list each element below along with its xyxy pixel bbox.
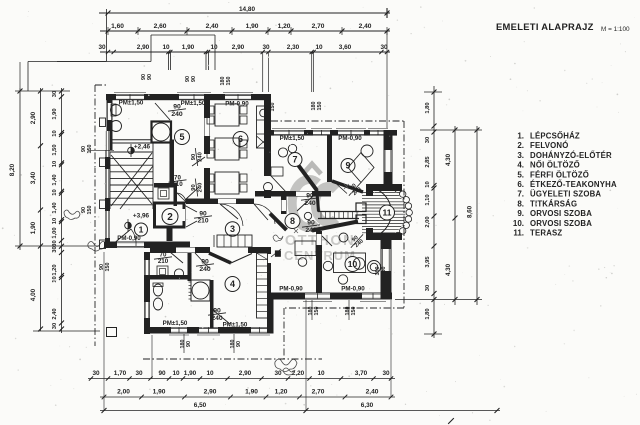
room1 entry door swing — [112, 229, 131, 245]
room4 vestibule diagonals — [209, 253, 231, 263]
bottom dimension row 1 — [88, 378, 395, 380]
room label 10 — [345, 257, 360, 272]
svg-text:2,90: 2,90 — [239, 370, 252, 377]
svg-text:11.: 11. — [513, 229, 524, 238]
room4 washbasin box — [157, 266, 168, 277]
north wall west block — [106, 94, 271, 100]
svg-text:6,50: 6,50 — [194, 402, 207, 409]
plant scribble south-east — [275, 359, 297, 372]
svg-text:10: 10 — [52, 218, 58, 224]
svg-text:90: 90 — [147, 74, 153, 80]
room6 kitchen counter — [257, 106, 271, 148]
svg-text:1,70: 1,70 — [114, 370, 127, 377]
svg-text:1,20: 1,20 — [275, 389, 288, 396]
room 8 desk — [295, 241, 316, 256]
svg-text:LÉPCSŐHÁZ: LÉPCSŐHÁZ — [530, 132, 580, 141]
north wall east block (rooms 7,9) — [264, 130, 397, 136]
svg-text:30: 30 — [98, 44, 106, 51]
svg-text:2,40: 2,40 — [359, 23, 372, 30]
door room10 terrace 90/240 rotated — [347, 231, 369, 252]
svg-text:2,90: 2,90 — [232, 44, 245, 51]
svg-text:4,30: 4,30 — [445, 263, 452, 276]
svg-text:10: 10 — [52, 189, 58, 195]
svg-text:TERASZ: TERASZ — [530, 229, 562, 238]
door room9 terrace 90/240 rotated — [345, 179, 367, 200]
svg-text:30: 30 — [135, 370, 143, 377]
svg-text:2,00: 2,00 — [425, 216, 431, 227]
annex south wall — [104, 242, 190, 249]
east wall room 10 — [381, 237, 392, 299]
room label 2 — [162, 209, 178, 225]
svg-text:PM±1,50: PM±1,50 — [163, 320, 188, 327]
corridor diagonal wall room7 — [297, 164, 317, 191]
corridor wall near elevator — [186, 199, 254, 205]
svg-text:210: 210 — [172, 181, 183, 188]
svg-text:150: 150 — [87, 206, 93, 215]
south wall central block — [144, 327, 271, 334]
svg-text:240: 240 — [211, 315, 223, 322]
svg-text:240: 240 — [199, 266, 211, 273]
svg-text:10: 10 — [52, 161, 58, 167]
svg-text:2.: 2. — [517, 141, 524, 150]
sill witness verticals — [183, 334, 185, 353]
svg-text:PM-0,90: PM-0,90 — [225, 101, 249, 108]
svg-text:1,10: 1,10 — [425, 194, 431, 205]
elevator door leaders — [184, 205, 197, 212]
room10 furniture — [334, 253, 366, 273]
svg-text:PM±1,50: PM±1,50 — [181, 100, 206, 107]
room 10 west wall — [316, 231, 322, 293]
svg-text:2,70: 2,70 — [312, 389, 325, 396]
door room4 vestibule 90/240 — [196, 259, 214, 273]
svg-text:2,00: 2,00 — [117, 389, 130, 396]
benchmark flag room1 — [125, 222, 132, 229]
svg-text:1,40: 1,40 — [52, 202, 58, 213]
door corridor east swing — [254, 204, 268, 220]
bottom dimension row 3 — [100, 410, 500, 412]
terrace semicircle deck — [373, 188, 391, 237]
survey marker — [128, 147, 135, 154]
svg-text:210: 210 — [197, 218, 208, 225]
door room5 90/240 — [155, 103, 170, 120]
svg-text:1: 1 — [139, 225, 144, 235]
wall room6 west lower part — [204, 168, 210, 204]
svg-text:M = 1:100: M = 1:100 — [601, 26, 630, 33]
room6 tables and chairs — [215, 104, 239, 126]
right inner chain — [433, 86, 435, 338]
left middle chain — [40, 88, 42, 331]
rooms 7-9 divider wall — [327, 135, 332, 182]
svg-text:3,40: 3,40 — [30, 171, 37, 184]
east wall room 6 block — [264, 94, 271, 134]
svg-text:1,20: 1,20 — [278, 23, 291, 30]
svg-text:8.: 8. — [517, 199, 524, 208]
room 8 west wall stub — [281, 196, 287, 214]
room9 south diagonal wall — [332, 181, 363, 192]
door room7 swing — [271, 176, 287, 193]
svg-text:6,30: 6,30 — [361, 402, 374, 409]
svg-text:150: 150 — [226, 77, 232, 86]
svg-text:8: 8 — [290, 216, 295, 226]
svg-text:2,40: 2,40 — [206, 23, 219, 30]
svg-text:30: 30 — [262, 44, 270, 51]
left inner chain — [61, 88, 63, 333]
terrace bay jambs — [366, 184, 402, 196]
svg-text:3,60: 3,60 — [339, 44, 352, 51]
svg-text:2,40: 2,40 — [366, 389, 379, 396]
svg-text:30: 30 — [274, 370, 282, 377]
svg-text:ÜGYELETI SZOBA: ÜGYELETI SZOBA — [530, 190, 601, 199]
stray tick bottom right — [448, 418, 454, 424]
svg-text:ORVOSI SZOBA: ORVOSI SZOBA — [530, 219, 592, 228]
top dimension row 3 — [100, 51, 390, 53]
room5 wall chairs — [111, 105, 122, 116]
svg-text:2,70: 2,70 — [312, 23, 325, 30]
left witness lines — [15, 245, 100, 247]
svg-text:1,90: 1,90 — [52, 108, 58, 119]
corridor steps band to terrace — [318, 211, 359, 213]
svg-text:PM-0,90: PM-0,90 — [341, 286, 365, 293]
room label 6 — [233, 132, 248, 147]
room6/7 wall lower — [264, 134, 271, 176]
room4 shower — [191, 280, 210, 301]
svg-text:30: 30 — [92, 370, 100, 377]
terrace deck stripes — [362, 192, 396, 194]
dash-dot overhang boundary — [271, 120, 404, 122]
svg-text:30: 30 — [52, 323, 58, 329]
svg-text:14,80: 14,80 — [239, 6, 255, 13]
room4 NE wall to east — [248, 247, 271, 253]
svg-text:ORVOSI SZOBA: ORVOSI SZOBA — [530, 209, 592, 218]
svg-text:10: 10 — [52, 130, 58, 136]
room7 chairs — [278, 148, 287, 157]
top witness step outline — [57, 61, 151, 63]
stairs room 1 — [110, 151, 153, 153]
svg-text:3,70: 3,70 — [355, 370, 368, 377]
svg-text:4,30: 4,30 — [445, 153, 452, 166]
svg-text:210: 210 — [158, 258, 169, 265]
svg-text:1,80: 1,80 — [425, 308, 431, 319]
storage box — [158, 188, 169, 199]
svg-text:FELVONÓ: FELVONÓ — [530, 141, 569, 150]
svg-text:ÉTKEZŐ-TEAKONYHA: ÉTKEZŐ-TEAKONYHA — [530, 180, 617, 189]
svg-text:2,30: 2,30 — [287, 44, 300, 51]
west wall lower block — [144, 252, 150, 334]
room4 toilets — [153, 284, 162, 296]
svg-text:10: 10 — [210, 44, 218, 51]
double witness ticks below row 3 — [168, 52, 170, 70]
room label 7 — [288, 153, 302, 167]
watermark logo OC — [292, 180, 336, 228]
svg-text:1,00: 1,00 — [52, 227, 58, 238]
room label 5 — [175, 130, 190, 145]
svg-text:1,90: 1,90 — [30, 221, 37, 234]
svg-text:3: 3 — [230, 224, 235, 234]
svg-text:1,90: 1,90 — [182, 44, 195, 51]
svg-text:1,90: 1,90 — [245, 389, 258, 396]
terrace scallop stones — [395, 186, 401, 192]
door room3 north swing — [220, 204, 238, 219]
elevator door gap — [182, 209, 186, 221]
svg-text:240: 240 — [197, 183, 203, 193]
room4 east wall — [267, 253, 271, 299]
svg-text:150: 150 — [270, 103, 276, 112]
svg-text:240: 240 — [305, 227, 317, 234]
right outer chain 8,60 — [476, 126, 478, 305]
scribble marks — [344, 184, 356, 193]
terrace door panels — [356, 203, 366, 212]
elevator room 2 shaft — [155, 203, 185, 227]
svg-text:PM±1,50: PM±1,50 — [223, 322, 248, 329]
svg-text:240: 240 — [197, 152, 203, 162]
svg-text:10: 10 — [317, 370, 325, 377]
svg-text:30: 30 — [52, 91, 58, 97]
svg-text:6.: 6. — [517, 180, 524, 189]
svg-text:10: 10 — [206, 370, 214, 377]
right middle chain 4,30+4,30 — [454, 126, 456, 305]
svg-text:2,60: 2,60 — [154, 23, 167, 30]
svg-text:NŐI ÖLTÖZŐ: NŐI ÖLTÖZŐ — [530, 161, 580, 170]
svg-text:DOHÁNYZÓ-ELŐTÉR: DOHÁNYZÓ-ELŐTÉR — [530, 151, 612, 160]
storage room walls — [154, 183, 177, 188]
stair landing wall — [170, 140, 175, 185]
svg-text:5.: 5. — [517, 170, 524, 179]
svg-text:PM-0,90: PM-0,90 — [279, 286, 303, 293]
south wall right block — [267, 293, 392, 300]
room label 4 — [225, 277, 240, 292]
svg-text:150: 150 — [314, 307, 320, 316]
west wall upper — [107, 94, 113, 150]
svg-text:PM±1,50: PM±1,50 — [119, 100, 144, 107]
witness line left at 1,50 level — [88, 149, 114, 151]
room 8 plant scribble — [273, 235, 283, 241]
door room4 south 90/240 — [208, 308, 226, 322]
svg-text:150: 150 — [351, 307, 357, 316]
svg-text:10: 10 — [315, 44, 323, 51]
svg-text:9.: 9. — [517, 209, 524, 218]
top dimension row 1 total 14,80 — [99, 12, 390, 14]
svg-text:30: 30 — [52, 246, 58, 252]
svg-text:30: 30 — [382, 370, 390, 377]
svg-text:1,80: 1,80 — [425, 102, 431, 113]
svg-text:1,40: 1,40 — [52, 174, 58, 185]
room label 11 — [380, 205, 395, 220]
room label 8 — [285, 214, 300, 229]
left chain total 8,20 — [19, 88, 21, 250]
svg-text:2: 2 — [167, 212, 173, 223]
svg-text:30: 30 — [425, 285, 431, 291]
svg-text:4.: 4. — [517, 161, 524, 170]
room label 1 — [135, 223, 148, 236]
room label 9 — [341, 159, 355, 173]
corridor lower diagonal wall — [312, 222, 358, 231]
svg-text:1,90: 1,90 — [246, 23, 259, 30]
svg-text:90: 90 — [191, 76, 197, 82]
door 70/210 upper — [169, 175, 187, 189]
svg-text:+3,96: +3,96 — [133, 213, 150, 220]
svg-text:90: 90 — [186, 341, 192, 347]
svg-text:10: 10 — [348, 259, 358, 269]
svg-text:PM-0,90: PM-0,90 — [338, 135, 362, 142]
door corridor rotated 90/240 lower — [185, 187, 199, 200]
svg-text:+2,46: +2,46 — [134, 144, 151, 151]
room9 diamond table — [348, 153, 374, 183]
room 8 NW diagonal wall — [270, 214, 287, 231]
svg-text:7: 7 — [292, 155, 297, 165]
right witness lines — [420, 129, 482, 131]
svg-text:10: 10 — [52, 276, 58, 282]
west wall stair area — [105, 150, 110, 248]
svg-text:EMELETI ALAPRAJZ: EMELETI ALAPRAJZ — [496, 21, 594, 32]
door room8 90/240 b — [302, 220, 320, 234]
room5 south balustrade double line — [111, 139, 152, 141]
svg-text:10: 10 — [162, 44, 170, 51]
svg-text:2,85: 2,85 — [425, 156, 431, 168]
room5 table — [152, 122, 172, 143]
room8 shelving strip — [257, 253, 268, 318]
svg-text:30: 30 — [425, 137, 431, 143]
top dimension row 2 — [100, 30, 390, 32]
svg-text:PM±1,50: PM±1,50 — [280, 135, 305, 142]
svg-text:90: 90 — [236, 341, 242, 347]
svg-text:2,90: 2,90 — [204, 389, 217, 396]
svg-text:10.: 10. — [513, 219, 524, 228]
svg-text:1,50: 1,50 — [52, 144, 58, 155]
svg-text:1,90: 1,90 — [153, 389, 166, 396]
step wall between south walls — [267, 299, 274, 334]
wall between rooms 5 and 6 — [204, 94, 210, 154]
svg-text:5: 5 — [179, 132, 184, 142]
room3 bench — [217, 235, 252, 247]
svg-text:10: 10 — [172, 370, 180, 377]
svg-text:90: 90 — [158, 370, 166, 377]
svg-text:4,00: 4,00 — [30, 288, 37, 301]
west pilasters — [100, 118, 106, 127]
svg-text:7.: 7. — [517, 190, 524, 199]
pilaster box on dashed line — [107, 328, 117, 337]
svg-text:240: 240 — [171, 111, 183, 118]
svg-text:8,20: 8,20 — [9, 163, 16, 176]
svg-text:1,20: 1,20 — [52, 264, 58, 275]
plant scribble west — [88, 242, 106, 252]
east wall room 9 — [384, 130, 393, 190]
svg-text:150: 150 — [87, 145, 93, 154]
bottom witness lines — [103, 252, 105, 411]
svg-text:240: 240 — [304, 200, 316, 207]
room4 cubicle walls — [144, 275, 191, 280]
svg-text:2,90: 2,90 — [137, 44, 150, 51]
room label 3 — [225, 222, 239, 236]
room 8 column box — [275, 250, 281, 256]
storage door arc — [177, 193, 186, 203]
svg-text:1.: 1. — [517, 132, 524, 141]
bottom dimension row 2 — [100, 396, 395, 398]
svg-text:150: 150 — [317, 102, 323, 111]
door corridor rotated 90/240 upper — [192, 157, 205, 166]
corridor wall left of room3 — [167, 227, 173, 241]
svg-text:1,90: 1,90 — [184, 370, 197, 377]
door rooms 7-9 swing — [336, 184, 347, 194]
svg-text:2,90: 2,90 — [30, 111, 37, 124]
rooms 7-8 divider wall — [255, 191, 331, 197]
room 10 door swing — [322, 236, 332, 246]
witness NE corner — [386, 31, 388, 128]
svg-text:150: 150 — [105, 263, 111, 272]
svg-text:10: 10 — [425, 181, 431, 187]
svg-text:3.: 3. — [517, 151, 524, 160]
svg-text:4: 4 — [230, 279, 235, 289]
door 70/210 room4 — [154, 252, 172, 266]
room 4 north wall — [150, 247, 210, 253]
elevator label 90/210 — [194, 211, 212, 225]
svg-text:FÉRFI ÖLTÖZŐ: FÉRFI ÖLTÖZŐ — [530, 170, 589, 179]
svg-text:150: 150 — [381, 267, 387, 276]
svg-text:1,60: 1,60 — [111, 23, 124, 30]
svg-text:11: 11 — [383, 208, 392, 218]
svg-text:8,60: 8,60 — [467, 205, 474, 218]
door room8 90/240 a — [301, 193, 319, 207]
svg-text:2,40: 2,40 — [52, 308, 58, 319]
svg-text:PM-0,90: PM-0,90 — [117, 235, 141, 242]
svg-text:3,95: 3,95 — [425, 256, 431, 268]
